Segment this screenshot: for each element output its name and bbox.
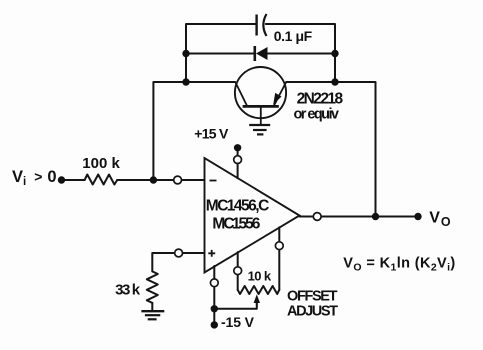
junction dot: -15V branch node [211,305,218,312]
pin circle: output [313,213,321,221]
pin circle: offset null right [275,242,283,250]
junction dot: diode line right [331,50,338,57]
diode D1 [255,46,268,61]
wire: -15V vertical below op-amp [213,266,215,325]
pin circle: non-inverting input [175,249,183,257]
wire: emitter lead to right feedback vertical down to output [286,82,375,217]
transistor Q1 base bar [243,105,279,108]
op-amp U1 triangle [205,158,300,273]
svg-text:-15 V: -15 V [221,314,255,330]
wire: diode line left segment [186,53,255,55]
svg-text:ADJUST: ADJUST [287,304,338,320]
wire: potentiometer right leg [278,227,280,289]
svg-text:MC 1456,C: MC 1456,C [206,198,269,215]
wire: diode line right segment [268,53,336,55]
svg-text:0.1 μF: 0.1 μF [274,28,313,44]
capacitor C1 0.1 uF [257,14,267,36]
potentiometer R3 10 k zigzag [238,286,280,294]
resistor R2 33 k zigzag [147,271,158,303]
svg-text:100 k: 100 k [82,155,120,172]
svg-text:10 k: 10 k [248,268,272,283]
transistor Q1 2N2218 circle [235,67,286,118]
transistor Q1 emitter diagonal [274,82,286,106]
svg-text:or equiv: or equiv [294,107,340,123]
junction dot: -15V terminal [211,321,218,328]
junction dot: +15V terminal [234,144,241,151]
op-amp U1 plus sign [208,250,215,257]
svg-text:MC 1556: MC 1556 [212,216,260,233]
wire: left feedback vertical from collector line down to input node [153,82,186,180]
transistor Q1 emitter arrow [273,93,281,105]
potentiometer wiper arrow [254,294,260,306]
ground symbol (transistor base) [249,125,270,134]
wire: input line from Vi to inverting input [62,179,205,181]
svg-text:2N2218: 2N2218 [297,90,344,107]
junction dot: collector line left [182,78,189,85]
junction dot: emitter line right [331,78,338,85]
wire: capacitor right lead and right top vertical [266,24,335,82]
pin circle: inverting input [174,176,182,184]
transistor Q1 base lead to ground [260,106,262,124]
pin circle: +15V pin [234,156,242,164]
wire: middle feedback vertical (cap corner to collector junction) [186,24,257,82]
junction dot: Vi input terminal [58,176,65,183]
wire: output line from op-amp apex to Vo terminal [300,216,419,218]
wire: +15V supply lead [237,148,239,178]
junction dot: inverting input node [150,176,157,183]
op-amp U1 minus sign [210,180,217,182]
junction dot: diode line left [182,50,189,57]
pin circle: offset null left [234,267,242,275]
ground symbol (33 k resistor) [141,311,164,319]
wire: collector lead into transistor [186,81,235,83]
wire: potentiometer left leg [237,252,239,290]
wire: -15V branch to potentiometer wiper [214,303,256,309]
svg-text:+15 V: +15 V [194,126,229,142]
svg-text:OFFSET: OFFSET [287,289,338,305]
junction dot: Vo terminal [414,213,421,220]
pin circle: -15V pin [210,279,218,287]
resistor R1 100 k zigzag [85,175,118,185]
svg-text:33 k: 33 k [115,281,141,298]
wire: non-inverting input wire [152,253,204,271]
junction dot: output feedback node [372,213,379,220]
transistor Q1 collector diagonal [236,83,248,107]
resistor R2 33 k bottom lead [151,303,153,311]
